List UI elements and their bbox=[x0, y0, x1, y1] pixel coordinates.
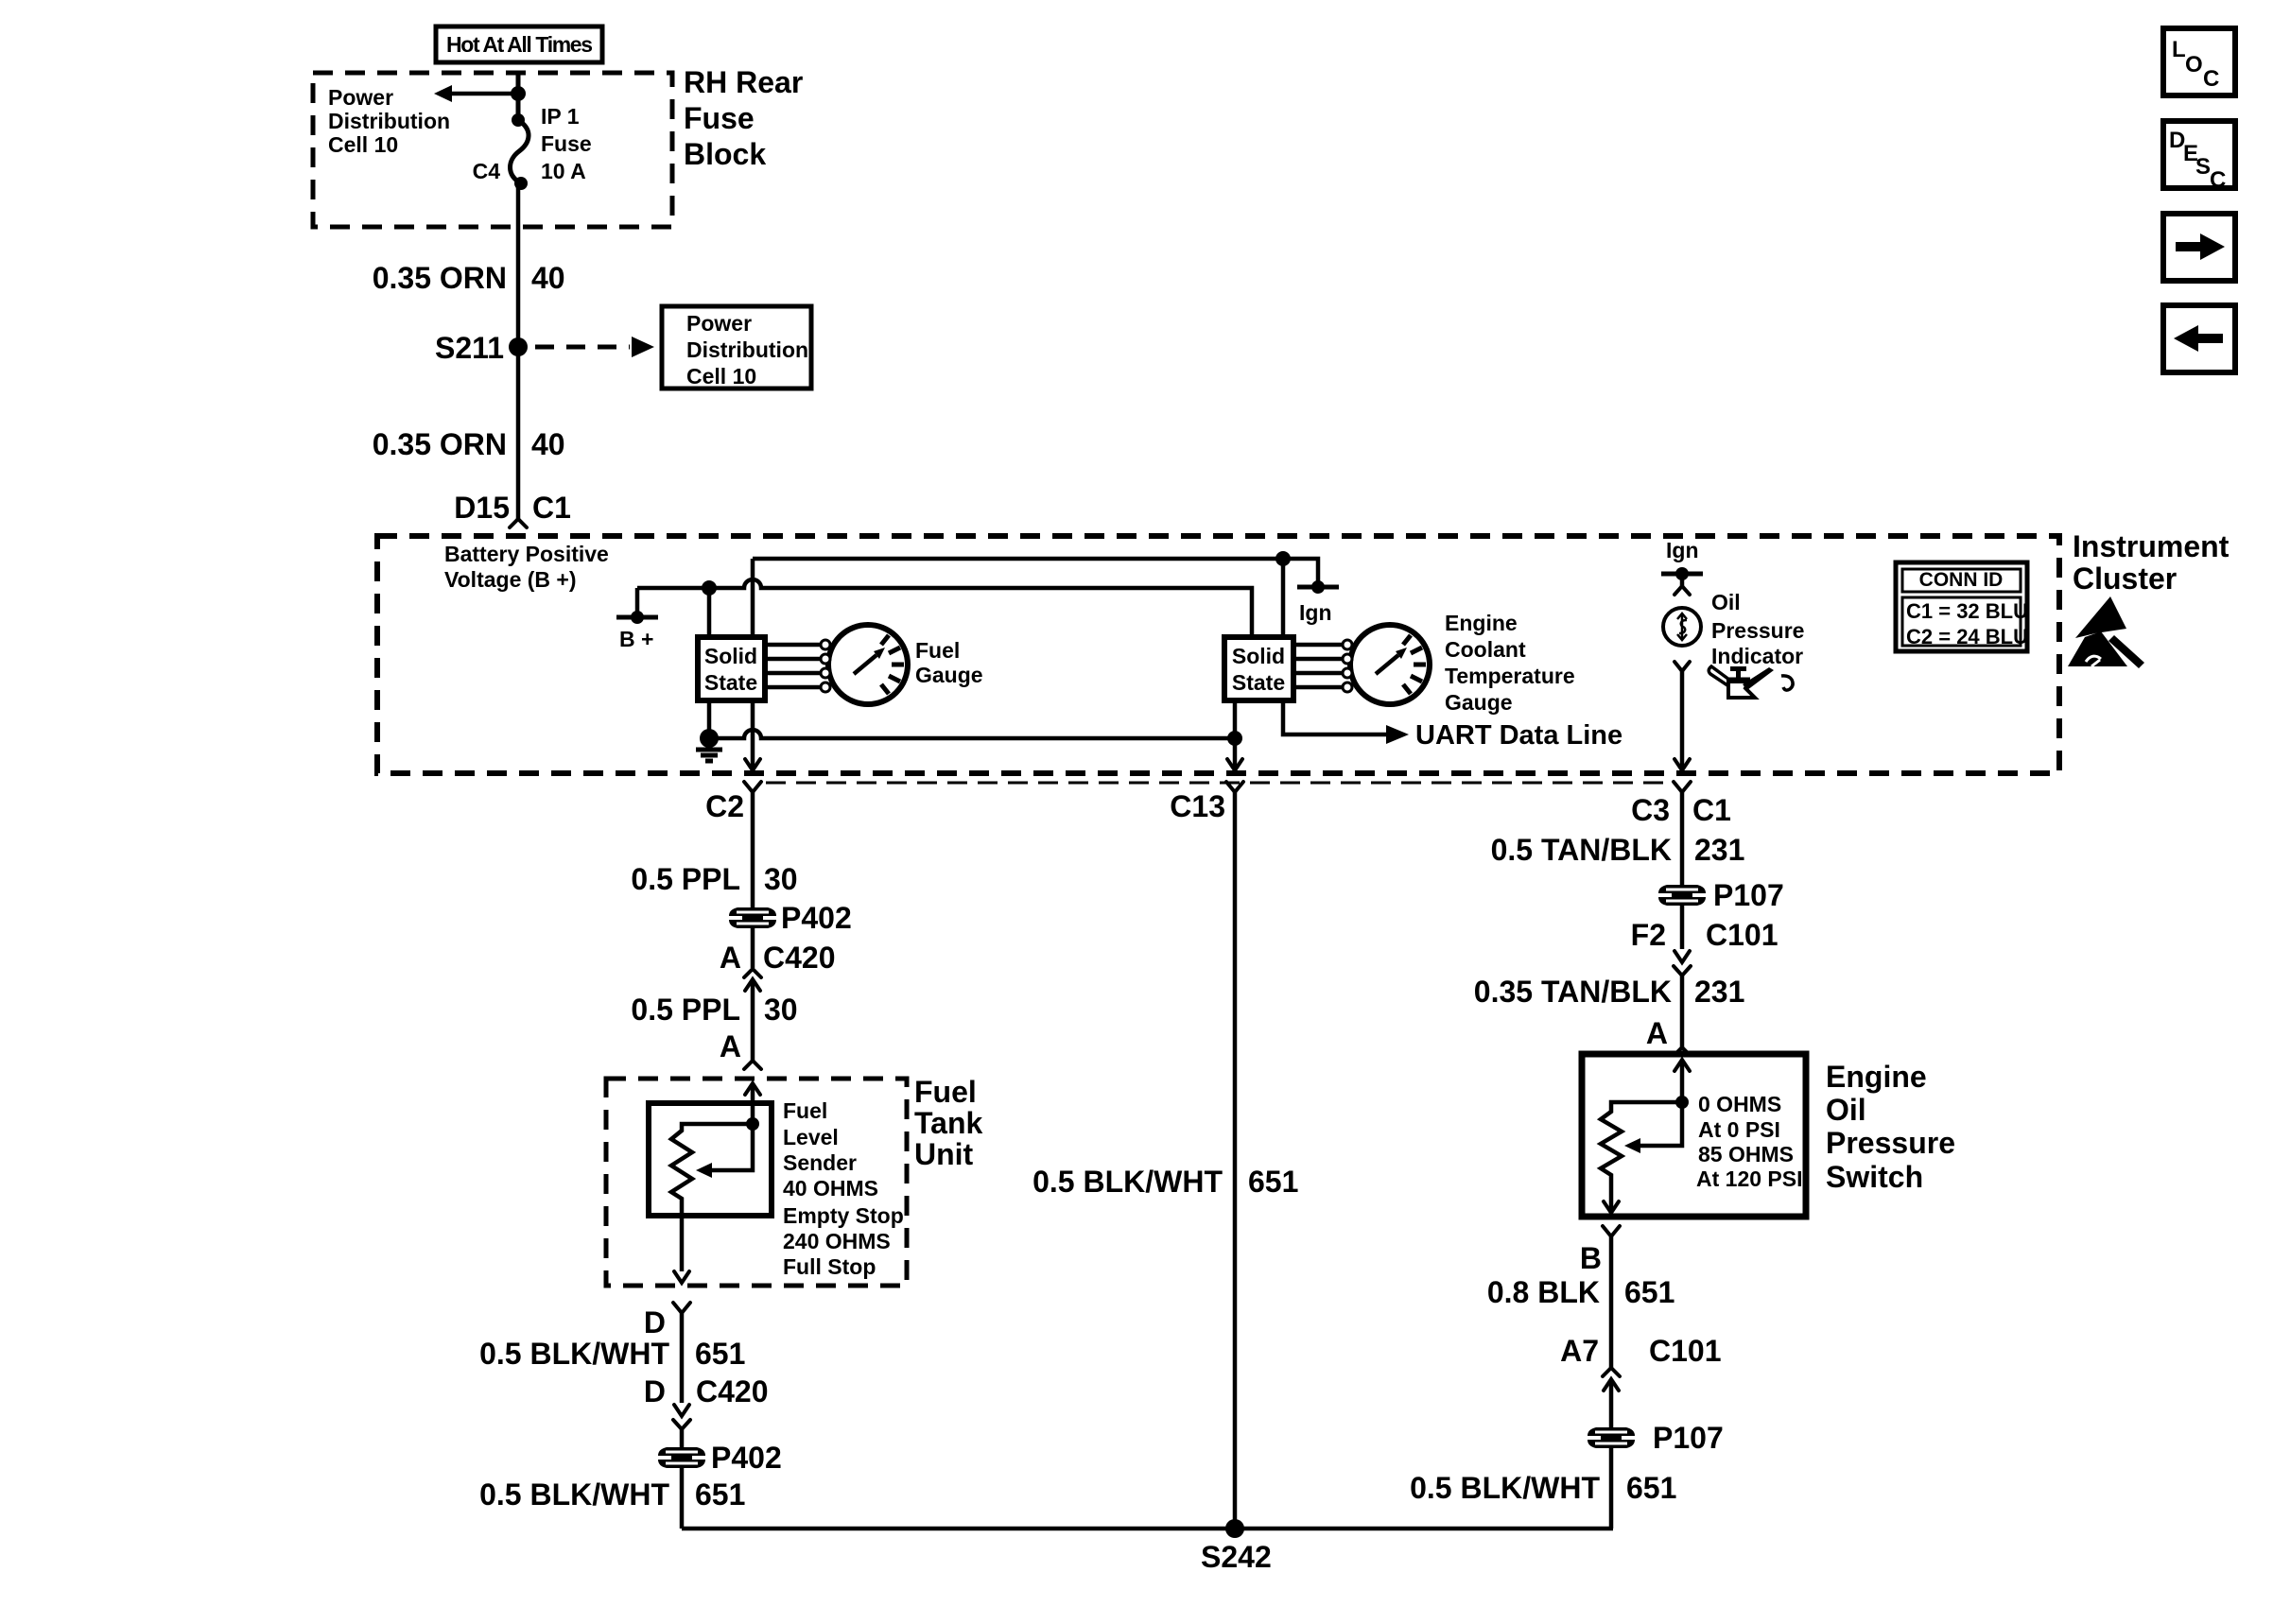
label Fuel Tank Unit bbox=[914, 1075, 983, 1171]
svg-text:Battery Positive: Battery Positive bbox=[444, 542, 609, 566]
svg-text:A: A bbox=[720, 941, 741, 975]
connector P107 (lower) bbox=[1588, 1421, 1724, 1455]
svg-text:Gauge: Gauge bbox=[915, 663, 983, 687]
UART data line bbox=[1283, 700, 1622, 751]
label 0.35 TAN/BLK 231 bbox=[1474, 975, 1745, 1009]
svg-text:D: D bbox=[644, 1374, 666, 1408]
svg-text:At 0 PSI: At 0 PSI bbox=[1698, 1117, 1780, 1142]
arrow leaving tank bbox=[674, 1271, 689, 1283]
label Fuel Level Sender bbox=[783, 1098, 904, 1279]
svg-text:Pressure: Pressure bbox=[1826, 1126, 1955, 1160]
label 0.35 ORN 40 (lower) bbox=[373, 427, 565, 461]
wire ground bus with hop bbox=[709, 730, 1235, 738]
svg-text:P402: P402 bbox=[781, 901, 852, 935]
svg-text:651: 651 bbox=[1624, 1275, 1674, 1309]
svg-text:P402: P402 bbox=[711, 1441, 782, 1475]
wire into switch bbox=[1680, 1060, 1685, 1102]
fuel level sender box bbox=[649, 1103, 772, 1216]
svg-text:Fuse: Fuse bbox=[541, 131, 592, 156]
svg-text:C1 = 32 BLU: C1 = 32 BLU bbox=[1906, 599, 2028, 623]
svg-text:0.5 BLK/WHT: 0.5 BLK/WHT bbox=[1410, 1471, 1600, 1505]
svg-text:C101: C101 bbox=[1706, 918, 1778, 952]
svg-text:Power: Power bbox=[686, 311, 752, 336]
box Power Distribution Cell 10 (right) bbox=[662, 306, 811, 389]
svg-text:Ign: Ign bbox=[1299, 600, 1332, 625]
pin A fuel tank bbox=[720, 1029, 761, 1069]
arrow C3 at cluster boundary bbox=[1674, 759, 1690, 770]
svg-text:Cell 10: Cell 10 bbox=[686, 364, 756, 389]
connector P107 (upper) bbox=[1658, 878, 1784, 912]
wire C420 to P402 bbox=[680, 1429, 685, 1529]
connector A7 C101 bbox=[1560, 1334, 1721, 1391]
svg-text:S242: S242 bbox=[1201, 1540, 1272, 1574]
svg-text:S: S bbox=[2195, 154, 2211, 180]
svg-text:651: 651 bbox=[695, 1477, 745, 1512]
svg-text:UART Data Line: UART Data Line bbox=[1415, 720, 1622, 751]
connector C3 C1 bbox=[1631, 782, 1731, 827]
nav box LOC bbox=[2163, 28, 2235, 95]
svg-text:Gauge: Gauge bbox=[1445, 690, 1513, 715]
wire B+ bus with hop bbox=[637, 579, 1252, 637]
svg-text:0.5 PPL: 0.5 PPL bbox=[631, 993, 740, 1027]
arrow leaving switch bbox=[1604, 1201, 1619, 1213]
svg-text:Oil: Oil bbox=[1826, 1093, 1866, 1127]
svg-text:40 OHMS: 40 OHMS bbox=[783, 1176, 878, 1201]
svg-text:D: D bbox=[644, 1305, 666, 1339]
fuel tank unit dashed box bbox=[606, 1079, 907, 1286]
svg-text:0.35 ORN: 0.35 ORN bbox=[373, 427, 507, 461]
connector B below switch bbox=[1580, 1226, 1620, 1275]
svg-text:Voltage (B +): Voltage (B +) bbox=[444, 567, 577, 592]
connector P402 (upper) bbox=[729, 901, 852, 935]
svg-text:CONN ID: CONN ID bbox=[1919, 569, 2004, 591]
svg-text:Fuel: Fuel bbox=[915, 638, 960, 663]
svg-text:Oil: Oil bbox=[1711, 590, 1741, 614]
arrow entering tank bbox=[745, 1083, 760, 1095]
oil can icon bbox=[1709, 666, 1793, 698]
svg-text:A: A bbox=[1646, 1016, 1668, 1050]
svg-text:C1: C1 bbox=[1692, 793, 1731, 827]
oil pressure indicator bbox=[1663, 590, 1804, 671]
label 0.5 BLK/WHT 651 (left lower) bbox=[479, 1477, 745, 1512]
svg-text:Solid: Solid bbox=[1232, 644, 1285, 668]
svg-text:Level: Level bbox=[783, 1125, 839, 1149]
connector C2 bbox=[705, 782, 761, 823]
wire C13 drop bbox=[1233, 738, 1238, 769]
svg-text:Full Stop: Full Stop bbox=[783, 1254, 876, 1279]
svg-text:S211: S211 bbox=[435, 331, 504, 365]
svg-text:C2 = 24 BLU: C2 = 24 BLU bbox=[1906, 625, 2028, 648]
svg-text:30: 30 bbox=[764, 862, 798, 896]
svg-text:0.35 ORN: 0.35 ORN bbox=[373, 261, 507, 295]
svg-text:30: 30 bbox=[764, 993, 798, 1027]
junction dot B+ to fuel module bbox=[702, 580, 717, 596]
svg-text:0.5 BLK/WHT: 0.5 BLK/WHT bbox=[1032, 1165, 1223, 1199]
label 0.5 TAN/BLK 231 bbox=[1491, 833, 1745, 867]
svg-text:Cell 10: Cell 10 bbox=[328, 132, 398, 157]
instrument cluster dashed box bbox=[377, 536, 2059, 773]
junction dot switch bbox=[1675, 1096, 1689, 1109]
solid state module (fuel gauge) bbox=[698, 588, 821, 738]
svg-text:Engine: Engine bbox=[1826, 1060, 1927, 1094]
svg-text:C420: C420 bbox=[696, 1374, 769, 1408]
fuse IP 1 10 A bbox=[473, 104, 592, 190]
svg-text:Fuse: Fuse bbox=[684, 101, 755, 135]
label 0.5 BLK/WHT 651 (center) bbox=[1032, 1165, 1298, 1199]
svg-text:C: C bbox=[2210, 167, 2226, 193]
svg-text:P107: P107 bbox=[1713, 878, 1784, 912]
label Battery Positive Voltage (B +) bbox=[444, 542, 609, 592]
svg-text:Cluster: Cluster bbox=[2073, 561, 2177, 596]
wire C3 to oil pressure switch bbox=[1680, 792, 1685, 949]
svg-text:0 OHMS: 0 OHMS bbox=[1698, 1092, 1781, 1116]
svg-text:Switch: Switch bbox=[1826, 1160, 1923, 1194]
svg-text:F2: F2 bbox=[1631, 918, 1666, 952]
svg-text:Solid: Solid bbox=[704, 644, 757, 668]
box Hot At All Times bbox=[436, 26, 602, 62]
svg-text:Empty Stop: Empty Stop bbox=[783, 1203, 904, 1228]
svg-text:A7: A7 bbox=[1560, 1334, 1599, 1368]
svg-text:240 OHMS: 240 OHMS bbox=[783, 1229, 891, 1253]
svg-text:C101: C101 bbox=[1649, 1334, 1722, 1368]
svg-text:Unit: Unit bbox=[914, 1137, 974, 1171]
wire C101 to switch bbox=[1680, 976, 1685, 1047]
svg-text:0.5 PPL: 0.5 PPL bbox=[631, 862, 740, 896]
svg-text:Tank: Tank bbox=[914, 1106, 983, 1140]
pin A oil switch bbox=[1646, 1016, 1691, 1056]
svg-text:Indicator: Indicator bbox=[1711, 644, 1803, 668]
svg-text:P107: P107 bbox=[1653, 1421, 1724, 1455]
connector P402 (lower) bbox=[658, 1441, 782, 1475]
svg-text:C420: C420 bbox=[763, 941, 836, 975]
RH Rear Fuse Block dashed box bbox=[313, 73, 672, 227]
label RH Rear Fuse Block bbox=[684, 65, 803, 171]
svg-text:651: 651 bbox=[1248, 1165, 1298, 1199]
CONN ID table bbox=[1896, 562, 2028, 651]
svg-text:40: 40 bbox=[531, 261, 565, 295]
junction dot sender bbox=[746, 1117, 759, 1131]
svg-text:Ign: Ign bbox=[1666, 538, 1699, 562]
svg-text:C: C bbox=[2203, 66, 2219, 92]
solid state module (coolant gauge) bbox=[1224, 559, 1343, 738]
svg-text:0.35 TAN/BLK: 0.35 TAN/BLK bbox=[1474, 975, 1672, 1009]
svg-text:At 120 PSI: At 120 PSI bbox=[1696, 1166, 1803, 1191]
connector face thin dashed line bbox=[766, 782, 1672, 785]
svg-text:Distribution: Distribution bbox=[686, 337, 808, 362]
svg-text:Pressure: Pressure bbox=[1711, 618, 1804, 643]
Ign terminal (cluster) bbox=[1297, 580, 1339, 625]
dashed arrow to Power Distribution Cell 10 bbox=[535, 337, 654, 357]
svg-text:State: State bbox=[704, 670, 757, 695]
arrow C2 at cluster boundary bbox=[745, 759, 760, 770]
label Power Distribution Cell 10 (fuse block) bbox=[328, 85, 450, 157]
wire fuse down to cluster bbox=[516, 183, 521, 519]
svg-text:Sender: Sender bbox=[783, 1150, 857, 1175]
svg-text:0.5 TAN/BLK: 0.5 TAN/BLK bbox=[1491, 833, 1672, 867]
wire C13 to S242 bbox=[1233, 792, 1238, 1529]
svg-text:40: 40 bbox=[531, 427, 565, 461]
svg-text:C3: C3 bbox=[1631, 793, 1670, 827]
switch resistor bbox=[1601, 1102, 1682, 1213]
connector D15 C1 bbox=[454, 491, 571, 527]
wire feed into fuse block bbox=[516, 73, 521, 120]
nav box arrow right bbox=[2163, 214, 2235, 281]
nav box arrow left bbox=[2163, 305, 2235, 372]
svg-text:Fuel: Fuel bbox=[783, 1098, 827, 1123]
svg-text:0.5 BLK/WHT: 0.5 BLK/WHT bbox=[479, 1477, 669, 1512]
svg-text:0.8 BLK: 0.8 BLK bbox=[1487, 1275, 1600, 1309]
label 0.5 PPL 30 (lower) bbox=[631, 993, 797, 1027]
splice S242 bbox=[1201, 1519, 1272, 1574]
arrow to Power Distribution (left) bbox=[434, 85, 526, 102]
engine oil pressure switch box bbox=[1582, 1054, 1806, 1217]
connector A C420 bbox=[720, 941, 836, 991]
svg-text:B +: B + bbox=[619, 627, 653, 651]
svg-text:Hot At All Times: Hot At All Times bbox=[446, 32, 593, 57]
arrow entering switch bbox=[1674, 1060, 1690, 1071]
switch wiper arrow bbox=[1624, 1102, 1682, 1153]
svg-text:D15: D15 bbox=[454, 491, 510, 525]
splice S211 bbox=[435, 331, 528, 365]
connector D C420 bbox=[644, 1374, 769, 1429]
nav box DESC bbox=[2163, 121, 2235, 193]
B+ terminal bbox=[616, 588, 658, 651]
svg-text:C1: C1 bbox=[532, 491, 571, 525]
svg-text:231: 231 bbox=[1694, 833, 1744, 867]
label Instrument Cluster bbox=[2073, 529, 2230, 596]
svg-text:Instrument: Instrument bbox=[2073, 529, 2230, 563]
svg-text:State: State bbox=[1232, 670, 1285, 695]
svg-text:231: 231 bbox=[1694, 975, 1744, 1009]
svg-text:Temperature: Temperature bbox=[1445, 664, 1575, 688]
connector F2 C101 bbox=[1631, 918, 1778, 976]
wire C2 vertical lower bbox=[751, 700, 755, 769]
wire C2 to fuel tank unit bbox=[751, 792, 755, 968]
label 0.5 BLK/WHT 651 (right) bbox=[1410, 1471, 1676, 1505]
svg-text:0.5 BLK/WHT: 0.5 BLK/WHT bbox=[479, 1337, 669, 1371]
label 0.5 PPL 30 (upper) bbox=[631, 862, 797, 896]
svg-text:85 OHMS: 85 OHMS bbox=[1698, 1142, 1794, 1166]
label 0.8 BLK 651 bbox=[1487, 1275, 1675, 1309]
ESD symbol bbox=[2068, 596, 2144, 668]
svg-text:RH Rear: RH Rear bbox=[684, 65, 803, 99]
wire B to C101 bbox=[1609, 1236, 1614, 1368]
svg-text:Engine: Engine bbox=[1445, 611, 1518, 635]
svg-text:C2: C2 bbox=[705, 789, 744, 823]
wire C101 to P107 bbox=[1609, 1379, 1614, 1529]
label 0.5 BLK/WHT 651 (left upper) bbox=[479, 1337, 745, 1371]
ground (cluster) bbox=[696, 729, 722, 761]
arrow C13 at cluster boundary bbox=[1227, 759, 1242, 770]
svg-text:A: A bbox=[720, 1029, 741, 1063]
svg-text:651: 651 bbox=[695, 1337, 745, 1371]
svg-text:Coolant: Coolant bbox=[1445, 637, 1526, 662]
wire Ign bus bbox=[753, 559, 1318, 586]
svg-text:C13: C13 bbox=[1170, 789, 1225, 823]
svg-text:Power: Power bbox=[328, 85, 393, 110]
svg-text:IP 1: IP 1 bbox=[541, 104, 580, 129]
svg-text:10 A: 10 A bbox=[541, 159, 586, 183]
sender wiper arrow bbox=[696, 1124, 753, 1178]
svg-text:C4: C4 bbox=[473, 159, 501, 183]
fuel gauge bbox=[821, 625, 983, 704]
ground bus bottom wire bbox=[682, 1527, 1613, 1531]
wire into sender bbox=[751, 1083, 755, 1124]
svg-text:Fuel: Fuel bbox=[914, 1075, 977, 1109]
svg-text:651: 651 bbox=[1626, 1471, 1676, 1505]
wire C420 to tank bbox=[751, 979, 755, 1061]
svg-text:B: B bbox=[1580, 1241, 1602, 1275]
sender resistor bbox=[671, 1124, 753, 1271]
connector C13 bbox=[1170, 782, 1243, 823]
label 0 OHMS At 0 PSI 85 OHMS At 120 PSI bbox=[1696, 1092, 1803, 1191]
svg-text:Distribution: Distribution bbox=[328, 109, 450, 133]
connector D below tank bbox=[644, 1303, 690, 1339]
Ign terminal (oil indicator) bbox=[1661, 538, 1703, 595]
junction dot Ign bus bbox=[1275, 551, 1291, 566]
svg-text:Block: Block bbox=[684, 137, 766, 171]
label 0.35 ORN 40 (upper) bbox=[373, 261, 565, 295]
svg-text:L: L bbox=[2172, 37, 2186, 62]
svg-text:O: O bbox=[2185, 52, 2203, 78]
coolant temperature gauge bbox=[1343, 611, 1575, 715]
label Engine Oil Pressure Switch bbox=[1826, 1060, 1955, 1194]
wire indicator down to C3 bbox=[1680, 671, 1685, 769]
wire C2 vertical upper bbox=[751, 559, 755, 637]
wire D to C420 bbox=[680, 1313, 685, 1403]
junction dot ground bus to C13 bbox=[1227, 731, 1242, 746]
